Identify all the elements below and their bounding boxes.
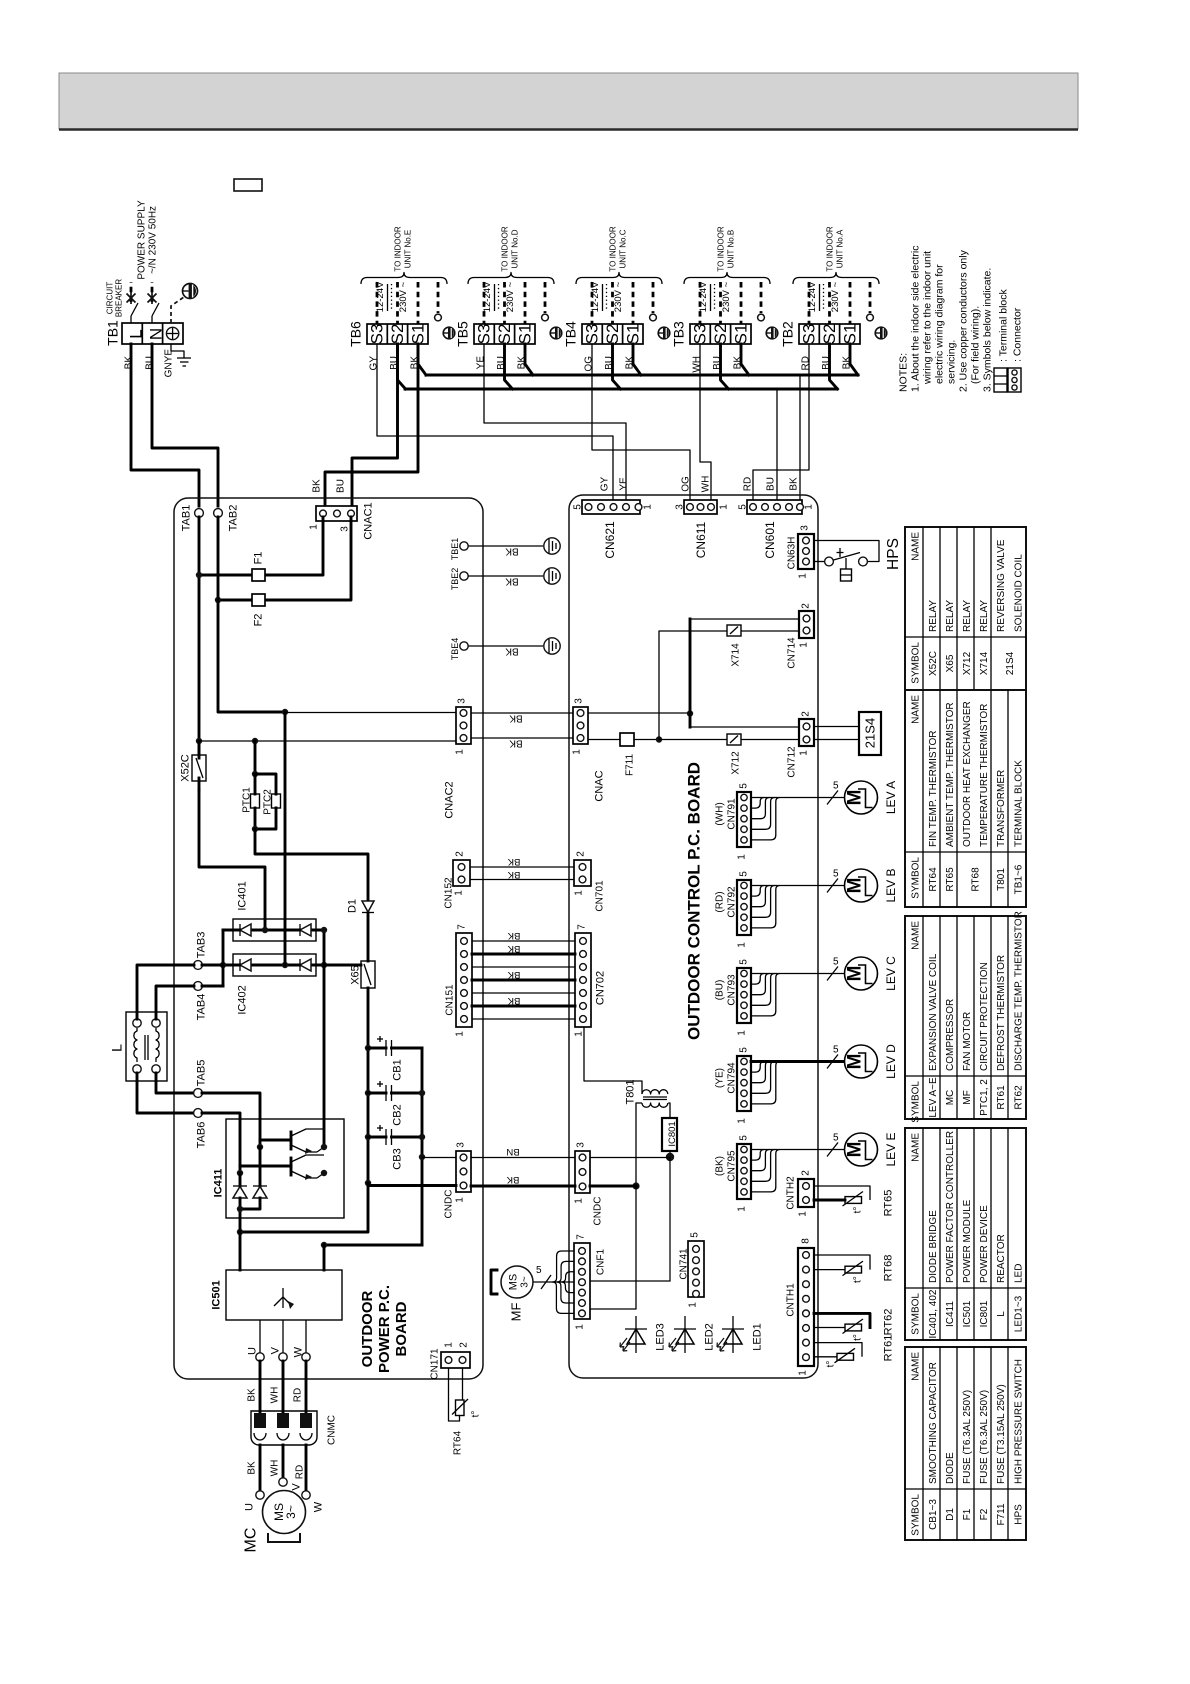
- svg-text:TBE2: TBE2: [450, 568, 460, 591]
- svg-text:F711: F711: [996, 1503, 1007, 1525]
- transformer T801: [625, 1079, 668, 1107]
- svg-text:TEMPERATURE THERMISTOR: TEMPERATURE THERMISTOR: [979, 704, 990, 847]
- svg-text:S3: S3: [583, 324, 602, 345]
- svg-text:F1: F1: [962, 1508, 973, 1520]
- brace TO INDOOR UNIT No.C: [576, 273, 662, 285]
- terminal TAB1: [181, 505, 204, 532]
- svg-text:V: V: [270, 1346, 282, 1354]
- svg-text:1: 1: [573, 1198, 584, 1204]
- wire TAB1 down: [198, 517, 201, 758]
- svg-text:230V ~: 230V ~: [613, 281, 624, 312]
- wire CB rail to CNDC pin3: [422, 1157, 456, 1159]
- svg-text:7: 7: [576, 924, 587, 930]
- svg-text:SYMBOL: SYMBOL: [910, 1081, 921, 1123]
- svg-text:WH: WH: [700, 476, 711, 493]
- connector CN601: [737, 500, 814, 559]
- svg-text:TB1~6: TB1~6: [1013, 864, 1024, 894]
- svg-text:TB4: TB4: [563, 321, 579, 347]
- svg-text:BU: BU: [144, 356, 155, 370]
- svg-text:SYMBOL: SYMBOL: [910, 642, 921, 684]
- svg-text:1: 1: [736, 1030, 747, 1036]
- expansion valve motor LEV B: [844, 868, 898, 902]
- svg-text:1: 1: [571, 749, 582, 755]
- svg-text:FAN MOTOR: FAN MOTOR: [962, 1012, 973, 1071]
- fuse F2: [215, 517, 351, 626]
- svg-text:BOARD: BOARD: [393, 1301, 410, 1356]
- fan motor MF: [491, 1266, 533, 1321]
- wire TB3 S3 to CN611 (WH): [700, 344, 711, 504]
- svg-text:S2: S2: [603, 324, 622, 345]
- svg-text:CN63H: CN63H: [786, 537, 797, 570]
- terminal TAB5: [194, 1060, 208, 1098]
- brace TO INDOOR UNIT No.B: [684, 273, 770, 285]
- svg-text:RD: RD: [292, 1388, 303, 1402]
- svg-text:2. Use copper conductors only: 2. Use copper conductors only: [957, 249, 969, 392]
- svg-text:230V ~: 230V ~: [721, 281, 732, 312]
- svg-text:S3: S3: [800, 324, 819, 345]
- svg-text:M: M: [844, 1054, 865, 1070]
- title header bar: [59, 73, 1078, 129]
- svg-text:(For field wiring).: (For field wiring).: [969, 306, 981, 384]
- svg-text:servicing.: servicing.: [945, 340, 957, 384]
- svg-text:3: 3: [339, 526, 350, 532]
- table section: fuses and capacitors: [905, 1347, 1026, 1540]
- svg-text:X714: X714: [730, 643, 741, 667]
- svg-text:MF: MF: [962, 1090, 973, 1104]
- svg-text:X52C: X52C: [180, 754, 192, 782]
- svg-text:1: 1: [642, 504, 653, 510]
- wire X65 down CB rail: [367, 988, 370, 1183]
- svg-text:3: 3: [456, 698, 467, 704]
- svg-text:t°: t°: [852, 1334, 863, 1341]
- svg-text:S3: S3: [691, 324, 710, 345]
- svg-text:LED3: LED3: [655, 1323, 667, 1351]
- svg-text:TERMINAL BLOCK: TERMINAL BLOCK: [1013, 760, 1024, 847]
- svg-text:1: 1: [443, 1342, 454, 1348]
- svg-text:HIGH PRESSURE SWITCH: HIGH PRESSURE SWITCH: [1013, 1359, 1024, 1484]
- wire node to CNF1 pin4: [590, 1158, 670, 1282]
- svg-text:HPS: HPS: [1013, 1504, 1024, 1525]
- svg-text:CNAC1: CNAC1: [363, 502, 375, 539]
- connector CN611: [674, 500, 729, 558]
- protective earth symbol top: [171, 284, 198, 324]
- svg-text:LEV C: LEV C: [884, 956, 898, 991]
- svg-text:BK: BK: [507, 869, 520, 880]
- svg-text:RELAY: RELAY: [962, 600, 973, 632]
- svg-text:BK: BK: [505, 646, 519, 657]
- svg-text:WH: WH: [269, 1460, 280, 1477]
- connector CN171: [429, 1342, 470, 1380]
- svg-text:MC: MC: [945, 1090, 956, 1106]
- capacitor CB1: [368, 1036, 422, 1081]
- connector CN701: [573, 851, 605, 912]
- wire F711 node up to CN714 pin1 line: [659, 631, 727, 740]
- wires CNDC power to CNDC control: [471, 1157, 575, 1159]
- svg-text:NAME: NAME: [910, 1352, 921, 1381]
- connector CNTH1: [785, 1238, 814, 1376]
- terminal block TB3: [671, 321, 751, 373]
- svg-text:3: 3: [674, 504, 685, 510]
- svg-text:RT65: RT65: [883, 1190, 895, 1217]
- svg-text:5: 5: [833, 1133, 839, 1144]
- svg-text:LEV B: LEV B: [884, 868, 898, 902]
- relay contact X65: [350, 961, 375, 988]
- svg-text:MS: MS: [508, 1274, 520, 1291]
- power device IC801: [662, 1103, 678, 1151]
- reactor L: [109, 1012, 167, 1081]
- svg-text:5: 5: [833, 869, 839, 880]
- svg-text:CN152: CN152: [443, 877, 454, 909]
- svg-text:W: W: [313, 1501, 325, 1512]
- svg-text:RELAY: RELAY: [979, 600, 990, 632]
- svg-text:1: 1: [736, 942, 747, 948]
- wire IC801 to CNDC pin3 node: [669, 1151, 671, 1157]
- svg-text:S2: S2: [388, 324, 407, 345]
- svg-text:IC402: IC402: [237, 985, 249, 1014]
- wire fan CN794 to LEV D: [751, 1045, 845, 1104]
- diode D1: [347, 899, 374, 913]
- svg-text:RD: RD: [742, 477, 753, 491]
- svg-text:t°: t°: [470, 1411, 481, 1418]
- svg-text:POWER P.C.: POWER P.C.: [376, 1285, 393, 1373]
- svg-text:REVERSING VALVE: REVERSING VALVE: [996, 539, 1007, 632]
- wire S1 bus to CN601 (BK): [799, 375, 801, 504]
- svg-text:CN791: CN791: [726, 798, 737, 830]
- TB3 S2/S1 bus joins: [721, 344, 729, 389]
- svg-text:CNTH2: CNTH2: [785, 1176, 796, 1210]
- svg-text:230V ~: 230V ~: [505, 281, 516, 312]
- svg-text:5: 5: [737, 504, 748, 510]
- svg-text:TAB4: TAB4: [196, 994, 208, 1021]
- output terminal V: [270, 1320, 288, 1361]
- svg-text:CN793: CN793: [726, 974, 737, 1006]
- svg-text:M: M: [844, 878, 865, 894]
- svg-text:BK: BK: [507, 930, 520, 941]
- svg-text:~/N 230V 50Hz: ~/N 230V 50Hz: [147, 206, 158, 274]
- wire fan CN793 to LEV C: [751, 957, 845, 1016]
- expansion valve motor LEV C: [844, 956, 898, 991]
- svg-text:NAME: NAME: [910, 695, 921, 724]
- connector CNDC power board: [443, 1142, 471, 1219]
- brace TO INDOOR UNIT No.A: [793, 273, 879, 285]
- svg-text:RT62: RT62: [1013, 1085, 1024, 1110]
- connector CN791: [714, 783, 751, 860]
- svg-text:1: 1: [454, 749, 465, 755]
- svg-text:CN702: CN702: [595, 971, 607, 1005]
- svg-text:TB5: TB5: [455, 321, 471, 347]
- thermistor RT62: [814, 1309, 895, 1341]
- svg-text:F2: F2: [253, 614, 265, 627]
- svg-text:RT61: RT61: [996, 1085, 1007, 1110]
- note legend: terminal block symbol: [994, 288, 1009, 392]
- svg-text:UNIT No.D: UNIT No.D: [511, 229, 520, 268]
- svg-text:NOTES:: NOTES:: [897, 353, 909, 392]
- svg-text:GNYE: GNYE: [163, 349, 174, 378]
- connector CN741: [678, 1232, 704, 1308]
- wire CB rail to IC501 rail: [324, 1244, 422, 1247]
- svg-text:1: 1: [736, 854, 747, 860]
- wire CNAC pin3 to relay node: [588, 712, 690, 714]
- svg-text:1: 1: [574, 1324, 585, 1330]
- svg-text:S3: S3: [368, 324, 387, 345]
- svg-text:IC801: IC801: [667, 1121, 678, 1146]
- svg-text:UNIT No.A: UNIT No.A: [836, 229, 845, 268]
- svg-text:X712: X712: [730, 751, 741, 775]
- terminal block TB5: [455, 321, 535, 370]
- svg-text:1: 1: [797, 573, 808, 579]
- svg-text:X65: X65: [350, 965, 362, 985]
- svg-text:X714: X714: [979, 651, 990, 675]
- svg-text:F1: F1: [253, 552, 265, 565]
- svg-text:2: 2: [575, 851, 586, 857]
- svg-text:TRANSFORMER: TRANSFORMER: [996, 770, 1007, 847]
- svg-text:DISCHARGE TEMP. THERMISTOR: DISCHARGE TEMP. THERMISTOR: [1013, 911, 1024, 1071]
- wire CB left rail to diode node: [240, 1183, 368, 1232]
- svg-text:BK: BK: [509, 738, 523, 749]
- wire N rail to CNDC pin1: [368, 1184, 456, 1187]
- wire IC402 row to X65: [324, 964, 361, 967]
- svg-text:T801: T801: [996, 868, 1007, 891]
- svg-text:S2: S2: [820, 324, 839, 345]
- svg-text:1: 1: [803, 504, 814, 510]
- svg-text:BREAKER: BREAKER: [115, 279, 124, 317]
- earth symbol near TB2: [875, 327, 887, 339]
- svg-text:TO INDOOR: TO INDOOR: [501, 226, 510, 271]
- svg-text:PTC1: PTC1: [241, 787, 252, 813]
- svg-text:1: 1: [454, 1197, 465, 1203]
- svg-text:5: 5: [833, 1045, 839, 1056]
- svg-text:F2: F2: [979, 1508, 990, 1520]
- svg-text:CN171: CN171: [429, 1348, 440, 1380]
- svg-text:1. About the indoor side elect: 1. About the indoor side electric: [909, 245, 921, 392]
- wire TB1 L to TAB1 (BK): [131, 344, 199, 506]
- svg-text:RELAY: RELAY: [928, 600, 939, 632]
- svg-text:S2: S2: [495, 324, 514, 345]
- svg-text:L: L: [127, 329, 146, 338]
- svg-text:1: 1: [687, 1302, 698, 1308]
- wires CNAC2 to CNAC: [471, 712, 573, 714]
- svg-text:CB1: CB1: [392, 1059, 404, 1080]
- terminal TAB4: [194, 982, 223, 1021]
- terminal block TB1: [105, 320, 183, 346]
- wire TB5 S3 to CN621 (YE): [484, 344, 626, 504]
- svg-text:BK: BK: [505, 546, 519, 557]
- svg-text:CN795: CN795: [726, 1150, 737, 1182]
- svg-text:RT64: RT64: [452, 1430, 463, 1455]
- svg-text:D1: D1: [347, 899, 359, 913]
- high pressure switch HPS: [814, 538, 902, 581]
- terminal block TB6: [348, 321, 428, 370]
- svg-text:COMPRESSOR: COMPRESSOR: [945, 999, 956, 1071]
- svg-text:IC411: IC411: [945, 1301, 956, 1327]
- svg-text:SMOOTHING CAPACITOR: SMOOTHING CAPACITOR: [928, 1362, 939, 1484]
- svg-text:D1: D1: [945, 1508, 956, 1521]
- svg-text:1: 1: [736, 1206, 747, 1212]
- wire T801 secondary left down: [636, 1103, 642, 1186]
- svg-text:: Connector: : Connector: [1011, 307, 1023, 362]
- svg-text:OG: OG: [680, 476, 691, 492]
- earth symbol near TB3: [766, 327, 778, 339]
- svg-text:PTC1, 2: PTC1, 2: [979, 1079, 990, 1116]
- svg-text:L: L: [996, 1311, 1007, 1317]
- terminal TBE1: [450, 538, 560, 561]
- small empty rectangle marker: [234, 179, 262, 191]
- svg-text:1: 1: [454, 1031, 465, 1037]
- svg-text:U: U: [247, 1347, 259, 1355]
- svg-text:3: 3: [455, 1142, 466, 1148]
- svg-text:NAME: NAME: [910, 921, 921, 950]
- svg-text:LED1: LED1: [752, 1323, 764, 1351]
- wire TAB4 to reactor: [156, 986, 194, 1019]
- svg-text:(BU): (BU): [714, 980, 725, 1001]
- svg-text:FUSE (T6.3AL 250V): FUSE (T6.3AL 250V): [979, 1390, 990, 1484]
- svg-text:FUSE (T3.15AL 250V): FUSE (T3.15AL 250V): [996, 1384, 1007, 1484]
- svg-text:1: 1: [573, 1031, 584, 1037]
- table section: relays: [905, 527, 1026, 690]
- svg-text:REACTOR: REACTOR: [996, 1234, 1007, 1283]
- svg-text:5: 5: [833, 781, 839, 792]
- wire IC401/IC402 right rail down: [323, 930, 326, 1147]
- inverter IC501: [211, 1232, 342, 1320]
- svg-text:YE: YE: [618, 477, 629, 491]
- svg-text:POWER FACTOR CONTROLLER: POWER FACTOR CONTROLLER: [945, 1131, 956, 1283]
- wire T801 to CNF1 pin1: [590, 1186, 636, 1309]
- svg-text:230V ~: 230V ~: [830, 281, 841, 312]
- connector CNAC: [571, 698, 605, 802]
- svg-text:POWER DEVICE: POWER DEVICE: [979, 1205, 990, 1283]
- thermistor RT61: [814, 1335, 895, 1368]
- connector CNAC2: [444, 698, 471, 819]
- svg-text:LEV A: LEV A: [884, 781, 898, 814]
- wire CNDC pin3 to IC801 node: [590, 1157, 670, 1159]
- connector CNDC control board: [573, 1142, 603, 1226]
- svg-text:12-24V: 12-24V: [590, 281, 601, 312]
- wire TAB2 node down to IC402 center: [284, 712, 287, 965]
- connector CN152: [443, 851, 470, 909]
- svg-text:N: N: [147, 328, 166, 340]
- svg-text:RT68: RT68: [970, 867, 981, 892]
- svg-text:5: 5: [738, 959, 749, 965]
- svg-text:LED2: LED2: [704, 1323, 716, 1351]
- svg-text:: Terminal block: : Terminal block: [997, 288, 1009, 362]
- svg-text:CB3: CB3: [392, 1148, 404, 1169]
- wire X52C node to CNAC2 pin1: [199, 740, 456, 742]
- svg-text:UNIT No.E: UNIT No.E: [404, 230, 413, 269]
- svg-text:LED: LED: [1013, 1264, 1024, 1283]
- svg-text:CN794: CN794: [726, 1062, 737, 1094]
- svg-text:5: 5: [738, 783, 749, 789]
- svg-text:CNTH1: CNTH1: [785, 1283, 796, 1317]
- svg-text:CN151: CN151: [444, 984, 455, 1016]
- svg-text:t°: t°: [825, 1361, 836, 1368]
- terminal block TB4: [563, 321, 643, 372]
- wire S2 bus to CN601 (BU): [776, 389, 778, 504]
- svg-text:X712: X712: [962, 651, 973, 675]
- wire CNDC pin1 to T801 node: [590, 1185, 636, 1188]
- fan motor MF wires: [533, 1251, 574, 1313]
- svg-text:CNMC: CNMC: [326, 1415, 337, 1445]
- connector CN151: [444, 924, 472, 1037]
- svg-text:SYMBOL: SYMBOL: [910, 857, 921, 899]
- svg-text:t°: t°: [852, 1207, 863, 1214]
- TB6 S2/S1 bus joins: [398, 344, 406, 389]
- connector CNMC: [246, 1361, 337, 1445]
- svg-text:PTC2: PTC2: [262, 789, 273, 815]
- svg-text:(BK): (BK): [714, 1156, 725, 1176]
- svg-text:IC411: IC411: [213, 1169, 225, 1198]
- wire D1 to X65: [367, 913, 370, 961]
- svg-text:3~: 3~: [284, 1505, 298, 1519]
- wire reactor to TAB6: [137, 1073, 194, 1113]
- svg-text:electric wiring diagram for: electric wiring diagram for: [933, 264, 945, 384]
- earth symbol near TB4: [658, 327, 670, 339]
- table section: semiconductors: [905, 1128, 1026, 1340]
- svg-text:S1: S1: [624, 324, 643, 345]
- svg-text:TBE1: TBE1: [450, 538, 460, 561]
- svg-text:3: 3: [573, 698, 584, 704]
- connector CN794: [714, 1047, 751, 1124]
- svg-text:TAB6: TAB6: [196, 1122, 208, 1149]
- svg-text:2: 2: [458, 1342, 469, 1348]
- wire TB4 S3 to CN611 (OG): [592, 344, 690, 504]
- svg-text:LEV A~E: LEV A~E: [928, 1077, 939, 1118]
- svg-text:2: 2: [800, 603, 811, 609]
- svg-text:AMBIENT TEMP. THERMISTOR: AMBIENT TEMP. THERMISTOR: [945, 702, 956, 847]
- wire TB6 S3 to CN621 (GY): [377, 344, 613, 504]
- indicator LED3: [620, 1316, 667, 1353]
- svg-text:1: 1: [453, 890, 464, 896]
- svg-text:BK: BK: [509, 713, 523, 724]
- svg-text:S1: S1: [409, 324, 428, 345]
- svg-text:(WH): (WH): [714, 802, 725, 825]
- circuit breaker: [106, 200, 159, 323]
- svg-text:BU: BU: [765, 477, 776, 491]
- dashed field wiring above TB4: [590, 281, 656, 324]
- svg-text:CN611: CN611: [694, 521, 708, 558]
- svg-text:TAB1: TAB1: [181, 505, 193, 532]
- svg-text:IC401: IC401: [237, 881, 249, 910]
- svg-text:RELAY: RELAY: [945, 600, 956, 632]
- svg-text:CN792: CN792: [726, 886, 737, 918]
- svg-text:M: M: [844, 966, 865, 982]
- wire TB1 N to TAB2 (BU): [152, 344, 218, 506]
- wire TB2 S3 to CN601 (RD): [753, 344, 809, 504]
- svg-text:CN701: CN701: [594, 880, 605, 912]
- svg-text:21S4: 21S4: [1005, 651, 1016, 675]
- circuit protection PTC2: [252, 774, 281, 832]
- svg-text:DIODE BRIDGE: DIODE BRIDGE: [928, 1210, 939, 1283]
- outdoor power pc board outline: [174, 498, 483, 1379]
- wire TAB3 to reactor: [137, 965, 194, 1019]
- outdoor control pc board outline: [569, 495, 818, 1378]
- capacitor CB3: [368, 1125, 422, 1170]
- svg-text:BK: BK: [507, 995, 520, 1006]
- connector CN702: [573, 924, 606, 1037]
- svg-text:TAB3: TAB3: [196, 932, 208, 959]
- wire T801 primary to CN702 pin1: [584, 1027, 642, 1094]
- svg-text:NAME: NAME: [910, 1133, 921, 1162]
- power module IC411: [213, 1119, 344, 1218]
- terminal TAB6: [194, 1109, 208, 1149]
- earth symbol near TB6: [443, 327, 455, 339]
- svg-text:IC801: IC801: [979, 1300, 990, 1327]
- svg-text:CNDC: CNDC: [592, 1197, 603, 1226]
- svg-text:CN741: CN741: [678, 1248, 689, 1280]
- svg-text:TB2: TB2: [780, 321, 796, 347]
- svg-text:3: 3: [575, 1142, 586, 1148]
- dashed field wiring above TB6: [375, 281, 441, 324]
- connector CN63H: [786, 525, 814, 579]
